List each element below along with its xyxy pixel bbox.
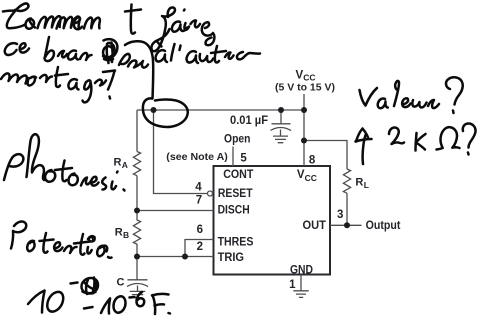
wire: Vcc lead from label bbox=[303, 94, 305, 110]
wire: OUT pin 3 bbox=[330, 224, 362, 226]
svg-text:(see Note A): (see Note A) bbox=[166, 151, 228, 163]
wire: TRIG pin 2 bbox=[137, 256, 214, 258]
svg-text:R: R bbox=[114, 157, 122, 169]
resistor RB bbox=[133, 211, 140, 257]
RESET bubble pin 4 bbox=[208, 191, 213, 196]
svg-text:DISCH: DISCH bbox=[218, 205, 250, 217]
handwriting: blob around node bbox=[143, 98, 188, 127]
svg-text:L: L bbox=[364, 180, 369, 190]
ground below 0.01uF bbox=[273, 136, 288, 143]
svg-text:A: A bbox=[122, 160, 128, 170]
node: junction Vcc/RESET (circled) bbox=[151, 107, 157, 113]
svg-text:OUT: OUT bbox=[303, 220, 326, 232]
wire: DISCH pin 7 bbox=[137, 210, 214, 212]
svg-text:2: 2 bbox=[197, 241, 203, 253]
ground below C bbox=[130, 291, 145, 297]
svg-text:1: 1 bbox=[289, 279, 296, 291]
wire: RA bottom to DISCH node bbox=[136, 176, 138, 211]
svg-text:CC: CC bbox=[303, 72, 315, 82]
handwriting: arrow bbox=[363, 135, 366, 164]
wire: THRES pin 6 branch bbox=[185, 240, 214, 257]
capacitor C plates bbox=[128, 279, 148, 281]
svg-text:Output: Output bbox=[366, 220, 401, 232]
wire: 0.01uF branch bbox=[280, 110, 282, 124]
handwriting: Valeur? bbox=[360, 88, 378, 106]
wire: RA top lead bbox=[136, 110, 138, 152]
svg-text:RESET: RESET bbox=[218, 188, 253, 200]
svg-text:R: R bbox=[355, 177, 363, 189]
svg-text:THRES: THRES bbox=[218, 237, 254, 249]
wire: CONT pin 5 stub bbox=[232, 147, 234, 167]
svg-text:7: 7 bbox=[196, 194, 202, 206]
wire: top Vcc rail bbox=[137, 109, 304, 111]
wire: GND pin 1 stub bbox=[300, 275, 302, 291]
handwriting: 2 bbox=[389, 128, 404, 145]
svg-text:3: 3 bbox=[337, 209, 343, 221]
handwriting: scribble over brancher bbox=[103, 39, 117, 63]
IC U1 555 timer body bbox=[214, 166, 331, 275]
handwriting: K bbox=[416, 133, 417, 151]
node: junction RA/RB/DISCH bbox=[134, 208, 140, 214]
resistor RA bbox=[133, 152, 140, 176]
handwriting: ? bbox=[463, 124, 476, 148]
wire: Vcc down to pin 8 bbox=[303, 110, 305, 166]
handwriting: - 10^-6 F bbox=[84, 307, 93, 309]
svg-text:4: 4 bbox=[195, 181, 202, 193]
wire: RESET pin 4 from top rail bbox=[154, 110, 208, 194]
handwriting: curve from scribble to node blob bbox=[125, 41, 153, 98]
handwriting: Comment bbox=[3, 3, 28, 28]
svg-text:B: B bbox=[123, 230, 129, 240]
node: junction Vcc/RL branch bbox=[301, 138, 307, 144]
ground below IC pin 1 bbox=[293, 291, 308, 298]
node: junction THRES/TRIG bbox=[182, 254, 188, 260]
svg-text:R: R bbox=[115, 227, 123, 239]
wire: RL branch from Vcc bbox=[304, 141, 347, 170]
svg-text:5: 5 bbox=[240, 152, 247, 164]
handwriting: brancher bbox=[45, 37, 54, 61]
svg-text:CONT: CONT bbox=[223, 169, 253, 181]
svg-text:TRIG: TRIG bbox=[218, 252, 244, 264]
svg-text:6: 6 bbox=[197, 224, 203, 236]
capacitor 0.01uF plates bbox=[272, 123, 291, 125]
node: junction RB/C/TRIG bbox=[134, 254, 140, 260]
handwriting: Photoresi. bbox=[4, 154, 23, 180]
handwriting: a l'autre bbox=[156, 50, 167, 62]
wire: C to ground bbox=[137, 286, 139, 292]
handwriting: faire bbox=[151, 7, 175, 51]
wire: 0.01uF to ground bbox=[280, 130, 282, 136]
svg-text:0.01 µF: 0.01 µF bbox=[230, 115, 268, 127]
svg-text:8: 8 bbox=[309, 154, 316, 166]
svg-text:CC: CC bbox=[305, 173, 317, 183]
wire: RL bottom to OUT bbox=[346, 193, 348, 225]
svg-text:(5 V to 15 V): (5 V to 15 V) bbox=[275, 83, 335, 94]
svg-text:GND: GND bbox=[290, 264, 313, 276]
node: junction 0.01uF on rail bbox=[278, 107, 284, 113]
node: junction RL/OUT bbox=[344, 222, 350, 228]
capacitor C lead bbox=[136, 257, 138, 280]
resistor RL bbox=[343, 169, 350, 193]
svg-text:C: C bbox=[117, 277, 125, 289]
handwriting: montage? bbox=[1, 73, 27, 83]
handwriting: 10^-9 bbox=[28, 291, 45, 305]
svg-text:Open: Open bbox=[224, 134, 251, 146]
node: junction rail/Vcc lead bbox=[301, 107, 307, 113]
handwriting: Omega bbox=[437, 127, 460, 149]
handwriting: ce bbox=[5, 43, 17, 55]
handwriting: Potentio. bbox=[11, 221, 26, 248]
